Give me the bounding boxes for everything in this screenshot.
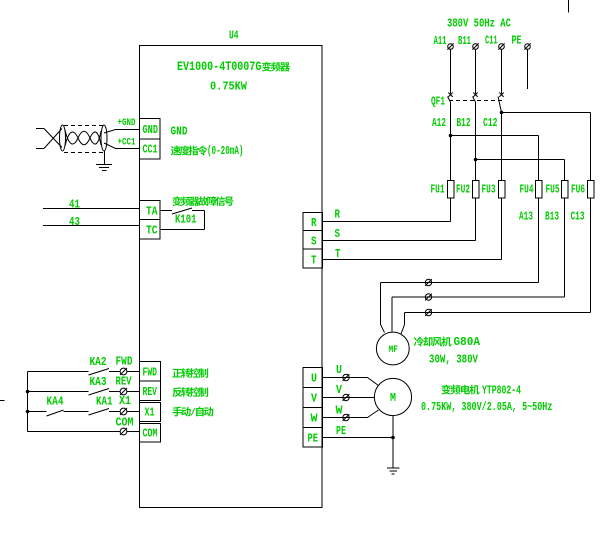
wire FU5 to fan [564,198,566,297]
connector on W [343,414,349,420]
terminal CC1 [140,139,161,159]
connector on fan wire 2 [425,294,431,300]
left rail [27,372,29,432]
node rail X1 [26,410,30,414]
wire A12 down [450,102,452,181]
svg-text:PE: PE [512,34,522,48]
svg-text:COM: COM [143,427,158,441]
svg-text:PE: PE [308,432,319,446]
node C12 junction [500,111,504,115]
svg-text:PE: PE [336,425,346,439]
svg-text:TA: TA [146,206,158,219]
terminal TC [140,220,161,240]
connector on U [343,374,349,380]
terminal GND [140,119,161,140]
terminal PE (output) [303,428,323,448]
fuse FU3 [498,181,505,199]
wire 43 [43,225,140,227]
terminal FWD [140,362,161,382]
fuse FU5 [561,181,568,199]
fuse FU2 [472,181,479,199]
svg-text:KA1: KA1 [96,396,112,409]
wire to CC1 [104,143,140,149]
svg-text:FU6: FU6 [571,184,585,197]
twisted pair wires [65,130,101,144]
svg-text:FU5: FU5 [546,184,560,197]
svg-text:YTP802-4: YTP802-4 [482,384,521,398]
svg-text:U4: U4 [229,29,239,42]
wire A12 branch to FU4 [451,135,539,137]
wire B12 down [475,102,477,181]
wire T [323,259,502,261]
svg-text:W: W [336,403,344,417]
svg-text:REV: REV [116,375,133,389]
connector FWD [120,368,127,375]
svg-text:A12: A12 [432,118,446,131]
fuse FU6 [587,181,594,199]
terminal R [303,213,323,231]
svg-text:EV1000-4T0007G: EV1000-4T0007G [177,61,262,74]
wire C12 down [501,113,503,181]
terminal TA [140,201,161,220]
relay contact K101 [160,210,172,212]
svg-text:R: R [335,209,341,222]
wire PE to ground [323,437,394,439]
svg-text:X1: X1 [145,406,155,420]
wire C12 branch to FU6 [502,112,591,114]
svg-text:V: V [311,393,317,406]
svg-text:A11: A11 [434,34,447,47]
terminal X1 [140,403,161,422]
svg-text:K101: K101 [175,213,196,227]
shield ground [104,151,106,165]
label EV1000-4T0007G inverter title [177,61,290,74]
breaker linkage dashed [449,100,502,102]
svg-text:X1: X1 [119,395,131,408]
svg-text:FWD: FWD [116,356,133,369]
svg-text:C13: C13 [571,211,585,224]
shielded cable crossing leads [44,129,62,149]
svg-text:FU1: FU1 [431,184,445,197]
node PE junction [391,436,395,440]
terminal W [303,408,323,428]
svg-text:+GND: +GND [118,116,136,129]
terminal U [303,368,323,388]
connector X1 [120,408,127,415]
svg-text:43: 43 [69,216,80,229]
wire W to motor [323,417,368,419]
svg-text:KA4: KA4 [47,396,64,409]
svg-text:C11: C11 [485,34,498,47]
wire phase A down [450,50,452,94]
off-page stub left [0,400,5,402]
svg-text:+CC1: +CC1 [118,135,136,148]
svg-text:GND: GND [143,124,158,138]
svg-text:0.75KW, 380V/2.05A, 5~50Hz: 0.75KW, 380V/2.05A, 5~50Hz [421,401,552,415]
svg-text:FWD: FWD [143,366,157,380]
motor MF cooling fan [376,332,409,365]
wire 41 [43,208,140,210]
terminal circle PE [525,44,531,50]
label forward control [172,369,182,378]
svg-text:B11: B11 [458,34,471,47]
connector on fan wire 3 [425,309,431,315]
svg-text:M: M [390,392,396,405]
wire PE down [527,50,529,90]
terminal REV [140,381,161,401]
connector COM [120,428,127,435]
node B12 junction [474,158,478,162]
svg-text:FU2: FU2 [456,184,470,197]
label manual/auto [172,407,182,417]
svg-text:MF: MF [389,343,398,355]
terminal circle A11 [448,44,454,50]
terminal circle B11 [473,44,479,50]
svg-text:41: 41 [69,199,80,212]
label fault signal [172,196,181,206]
label speed command 0-20mA [171,144,244,158]
wire FU4 to fan [538,198,540,283]
cable dashed outline [64,126,104,153]
svg-text:S: S [335,228,341,241]
svg-text:V: V [336,384,342,397]
svg-text:KA3: KA3 [90,376,107,389]
wire B12 branch to FU5 [476,159,565,161]
svg-text:GND: GND [171,126,188,139]
fuse FU4 [535,181,542,199]
inverter U4 main box [140,46,323,508]
wire S [323,240,476,242]
terminal S [303,231,323,250]
svg-text:TC: TC [146,225,158,238]
node rail REV [26,390,30,394]
ground (motor) [387,467,400,469]
wire COM [28,431,121,433]
shielded cable stub wires [36,128,44,130]
shield ellipse left [60,125,66,151]
motor M [374,378,411,415]
svg-text:A13: A13 [519,211,533,224]
node A12 junction [449,134,453,138]
svg-text:S: S [311,236,317,249]
svg-text:U: U [336,364,342,377]
svg-text:380V 50Hz AC: 380V 50Hz AC [447,17,511,31]
wire FU6 to fan [590,198,592,313]
connector on fan wire 1 [425,279,431,285]
svg-text:W: W [311,411,319,425]
wire to GND [104,130,140,134]
svg-text:FU3: FU3 [482,184,496,197]
wire U to motor [323,377,368,379]
label motor model [441,384,521,398]
svg-text:CC1: CC1 [143,143,158,157]
terminal COM [140,424,161,443]
svg-text:30W, 380V: 30W, 380V [429,353,478,367]
label cooling fan G80A [414,336,480,350]
svg-text:REV: REV [143,386,158,400]
svg-text:G80A: G80A [454,336,481,350]
svg-text:R: R [311,217,317,230]
svg-text:/: / [190,408,196,420]
connector on V [343,394,349,400]
wire R [323,221,451,223]
terminal circle C11 [499,44,505,50]
svg-text:QF1: QF1 [431,96,445,109]
terminal T [303,249,323,268]
svg-text:T: T [311,255,317,268]
fuse FU1 [447,181,454,199]
terminal V [303,388,323,408]
wire REV with switch KA3 [28,391,89,393]
svg-text:FU4: FU4 [520,184,534,197]
wire phase B down [475,50,477,94]
wire X1 with switches KA4 KA1 [28,411,47,413]
svg-text:C12: C12 [483,117,497,131]
svg-text:B12: B12 [457,118,471,131]
svg-text:0.75KW: 0.75KW [210,81,247,94]
svg-text:(0-20mA): (0-20mA) [207,144,243,158]
svg-text:KA2: KA2 [90,356,107,369]
off-page stub top right [568,0,570,13]
svg-text:B13: B13 [545,211,559,224]
wire V to motor [323,397,375,399]
shield ellipse right [101,125,107,151]
svg-text:U: U [311,373,317,386]
connector REV [120,388,127,395]
wire phase C down [501,50,503,94]
wire motor to ground [392,416,394,468]
wire FWD with switch KA2 [28,371,89,373]
label reverse control [172,387,182,397]
